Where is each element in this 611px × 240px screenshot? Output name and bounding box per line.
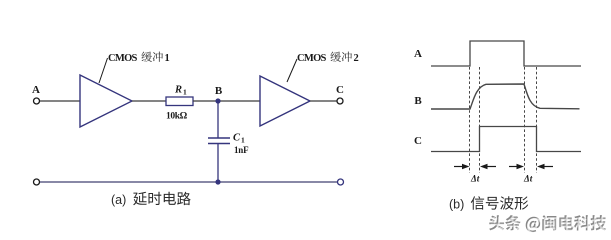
svg-text:B: B bbox=[414, 95, 422, 107]
svg-text:1nF: 1nF bbox=[234, 145, 249, 155]
svg-text:1: 1 bbox=[241, 136, 245, 145]
svg-text:Δt: Δt bbox=[523, 174, 533, 184]
svg-text:CMOS: CMOS bbox=[108, 53, 138, 64]
svg-text:(b): (b) bbox=[449, 198, 464, 212]
svg-text:(a): (a) bbox=[111, 193, 126, 207]
svg-text:A: A bbox=[32, 84, 40, 96]
svg-text:1: 1 bbox=[165, 53, 170, 64]
svg-text:R: R bbox=[174, 85, 182, 96]
svg-text:B: B bbox=[215, 85, 223, 97]
svg-text:C: C bbox=[336, 84, 344, 96]
svg-text:2: 2 bbox=[354, 53, 359, 64]
svg-text:CMOS: CMOS bbox=[297, 53, 327, 64]
svg-text:A: A bbox=[414, 48, 422, 60]
svg-text:C: C bbox=[233, 133, 241, 144]
svg-text:1: 1 bbox=[183, 88, 187, 97]
svg-text:10kΩ: 10kΩ bbox=[166, 112, 188, 122]
svg-text:C: C bbox=[414, 135, 422, 147]
svg-text:Δt: Δt bbox=[470, 174, 480, 184]
